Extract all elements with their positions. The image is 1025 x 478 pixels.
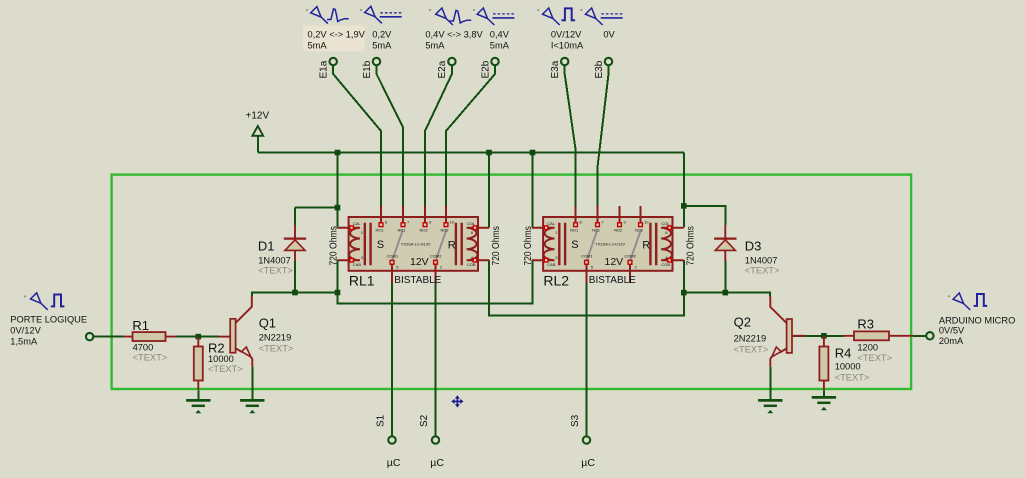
node bus-RL1R junction [486, 150, 492, 156]
svg-text:720 Ohms: 720 Ohms [523, 226, 534, 266]
terminal input left [86, 333, 93, 340]
wire bus to RL2 coil S top pin [532, 153, 534, 228]
resistor R2 10000 [194, 337, 203, 390]
svg-text:2N2219: 2N2219 [734, 334, 767, 344]
svg-text:COL: COL [661, 221, 670, 226]
svg-text:R: R [642, 239, 650, 251]
coil R of RL1 [467, 228, 490, 261]
wire bus to RL1 coil R top pin [488, 153, 490, 228]
svg-text:COM1: COM1 [387, 253, 399, 258]
wire RL1 COB to RL2 COB bottom link [489, 260, 684, 315]
svg-text:1,5mA: 1,5mA [10, 336, 38, 346]
svg-text:Q1: Q1 [259, 315, 276, 330]
wire Q2 emitter to ground [769, 367, 771, 401]
wire Q1 collector rail [252, 293, 338, 297]
wire bus to RL1 coil S top pin [337, 153, 339, 228]
terminal E2b [480, 58, 498, 79]
svg-text:COM2: COM2 [624, 253, 636, 258]
terminal S1 [376, 414, 396, 443]
svg-text:TX2SA-L2-H12V: TX2SA-L2-H12V [401, 241, 431, 246]
resistor R1 4700 [124, 332, 177, 341]
svg-text:I<10mA: I<10mA [551, 40, 584, 50]
svg-text:0,4V: 0,4V [490, 29, 510, 39]
svg-text:<TEXT>: <TEXT> [857, 353, 892, 363]
svg-text:CAL: CAL [547, 221, 556, 226]
wire E3a diagonal [565, 66, 576, 206]
svg-text:S: S [571, 239, 578, 251]
svg-text:0,2V: 0,2V [372, 29, 392, 39]
node D1 cathode junction [335, 205, 341, 211]
svg-text:S1: S1 [376, 414, 387, 427]
label R4 [835, 346, 870, 383]
probe E1a analog [306, 7, 349, 24]
node R2 base junction [196, 334, 202, 340]
probe E2a analog [429, 8, 471, 25]
svg-text:<TEXT>: <TEXT> [734, 345, 769, 355]
wire E2b diagonal [446, 66, 495, 206]
terminal S2 [419, 414, 439, 443]
ground under Q2 [758, 400, 782, 413]
label PORTE LOGIQUE [10, 315, 87, 347]
svg-text:CAB: CAB [353, 262, 362, 267]
svg-text:COB: COB [661, 262, 670, 267]
wire Q1 emitter to ground [251, 367, 253, 401]
pin stubs COM RL2 [587, 262, 631, 283]
wire R2 bottom to ground [197, 390, 199, 400]
relay RL2 body [543, 217, 672, 271]
pads RL2 [544, 223, 671, 264]
resistor R4 10000 [819, 336, 828, 391]
svg-text:NC1: NC1 [592, 228, 601, 233]
svg-text:0V/5V: 0V/5V [939, 326, 965, 336]
svg-text:D1: D1 [258, 238, 275, 253]
svg-text:RL1: RL1 [349, 272, 375, 288]
wire D1 cathode vertical [294, 208, 296, 225]
node D3 cathode junction [681, 203, 687, 209]
svg-text:NC2: NC2 [441, 228, 450, 233]
label +12V [246, 111, 270, 122]
svg-text:R: R [448, 239, 456, 251]
svg-text:720 Ohms: 720 Ohms [686, 226, 697, 266]
terminal E3a [550, 58, 568, 79]
svg-text:S: S [377, 239, 384, 251]
svg-text:BISTABLE: BISTABLE [589, 275, 636, 286]
wire Q2 base to R4 node [792, 335, 843, 337]
wire S1 COM1 down [391, 283, 393, 436]
svg-text:10: 10 [644, 220, 649, 225]
svg-text:+12V: +12V [246, 111, 270, 122]
svg-text:TX2SA-L2-H12V: TX2SA-L2-H12V [595, 241, 625, 246]
coil S of RL2 [532, 228, 555, 261]
svg-text:D3: D3 [745, 238, 762, 253]
node RL2 coil rail junction [681, 290, 687, 296]
pin stubs COM RL1 [392, 262, 436, 283]
label D1 [258, 238, 293, 275]
probe E1b dc [360, 6, 402, 23]
label probe1 values [308, 29, 366, 50]
node RL1 coil rail junction [335, 290, 341, 296]
probe E2b dc [473, 8, 514, 25]
wire bus corner down to RL2 coil R top pin [683, 153, 685, 228]
wire +12V horizontal bus [258, 152, 684, 154]
wire +12V vertical drop [257, 136, 259, 153]
wire RL1 CAB to RL2 CAB bottom link [338, 260, 533, 303]
resistor R3 1200 [843, 331, 913, 340]
svg-text:<TEXT>: <TEXT> [259, 343, 294, 353]
switch levers RL2 [587, 230, 642, 262]
svg-text:10: 10 [450, 220, 455, 225]
svg-text:10000: 10000 [208, 354, 234, 364]
wire E1b diagonal [377, 66, 404, 206]
coil S of RL1 [337, 228, 360, 261]
svg-text:0,4V <-> 3,8V: 0,4V <-> 3,8V [425, 29, 483, 39]
svg-text:µC: µC [430, 457, 444, 469]
wire R4 bottom to ground [823, 390, 825, 397]
label R2 [208, 340, 243, 373]
terminal E1b [362, 58, 380, 79]
wire R1 to Q1 base node [177, 336, 219, 338]
svg-text:COB: COB [467, 262, 476, 267]
svg-text:0V/12V: 0V/12V [10, 326, 41, 336]
node bus-RL2 junction [530, 150, 536, 156]
terminal E1a [319, 58, 337, 79]
origin marker crosshair [451, 395, 463, 407]
label probe2 values [372, 29, 392, 50]
wire R3 to output terminal [913, 335, 926, 337]
svg-text:E2b: E2b [480, 60, 491, 78]
svg-text:5mA: 5mA [425, 40, 445, 50]
wire D3 cathode branch [684, 206, 726, 225]
label uC S1 [387, 457, 401, 469]
svg-text:1N4007: 1N4007 [745, 256, 778, 266]
pin stubs top RL2 [576, 206, 641, 223]
svg-text:R4: R4 [835, 346, 852, 361]
relay RL1 body [349, 217, 478, 271]
wire E2a diagonal [425, 66, 452, 206]
terminal E3b [594, 58, 612, 79]
probe E3b dc [580, 8, 622, 25]
svg-text:µC: µC [387, 457, 401, 469]
ground under Q1 [240, 400, 264, 413]
svg-text:NC2: NC2 [635, 228, 644, 233]
pads RL1 [350, 223, 477, 264]
svg-text:NO1: NO1 [376, 228, 385, 233]
svg-text:BISTABLE: BISTABLE [394, 275, 441, 286]
node D1 anode junction [292, 290, 298, 296]
power +12V arrow [252, 126, 263, 136]
node D3 anode junction [723, 290, 729, 296]
svg-text:0V/12V: 0V/12V [551, 29, 582, 39]
svg-text:S3: S3 [570, 414, 581, 427]
wire D1 cathode to bus branch [295, 207, 338, 209]
svg-text:ARDUINO MICRO: ARDUINO MICRO [939, 316, 1015, 326]
svg-text:CAL: CAL [353, 221, 362, 226]
svg-text:RL2: RL2 [543, 272, 569, 288]
label R3 [857, 316, 892, 363]
transistor Q1 2N2219 [219, 296, 253, 367]
svg-text:R1: R1 [132, 318, 149, 333]
wire input terminal to R1 [94, 336, 124, 338]
tiny pin labels RL2 [547, 220, 670, 270]
svg-text:1200: 1200 [857, 342, 878, 352]
svg-text:<TEXT>: <TEXT> [258, 266, 293, 276]
svg-text:COM1: COM1 [581, 253, 593, 258]
svg-text:0,2V <-> 1,9V: 0,2V <-> 1,9V [308, 29, 366, 39]
pin stubs top RL1 [381, 206, 446, 223]
svg-text:NO2: NO2 [614, 228, 623, 233]
node R4 base junction [821, 333, 827, 339]
tiny pin labels RL1 [353, 220, 476, 270]
svg-text:12V: 12V [410, 256, 429, 268]
wire S2 COM2 down [435, 283, 437, 436]
highlight box [303, 26, 365, 52]
svg-text:<TEXT>: <TEXT> [835, 372, 870, 382]
core bars S RL2 [559, 223, 565, 266]
label uC S3 [581, 457, 595, 469]
switch levers RL1 [392, 230, 447, 262]
svg-text:2N2219: 2N2219 [259, 332, 292, 342]
svg-text:E3b: E3b [594, 60, 605, 78]
svg-text:5mA: 5mA [308, 40, 328, 50]
label R1 [132, 318, 167, 363]
svg-text:S2: S2 [419, 414, 430, 427]
terminal E2a [437, 58, 455, 79]
core bars S RL1 [365, 223, 371, 266]
svg-text:PORTE LOGIQUE: PORTE LOGIQUE [10, 315, 87, 325]
svg-text:E1b: E1b [362, 60, 373, 78]
svg-text:R3: R3 [857, 316, 874, 331]
wire D1 anode vertical [294, 261, 296, 293]
ground under R4 [812, 397, 836, 410]
svg-text:0V: 0V [603, 29, 615, 39]
svg-text:12V: 12V [605, 256, 624, 268]
svg-text:E3a: E3a [550, 60, 561, 78]
svg-text:NO2: NO2 [420, 228, 429, 233]
core bars R RL2 [650, 223, 656, 266]
wire Q2 collector rail [684, 293, 770, 297]
wire E3b diagonal [598, 66, 609, 206]
label Q2 [734, 315, 769, 355]
svg-text:720 Ohms: 720 Ohms [491, 226, 502, 266]
svg-text:5mA: 5mA [372, 40, 392, 50]
diode D1 1N4007 [284, 225, 306, 261]
svg-text:<TEXT>: <TEXT> [133, 353, 168, 363]
label Q1 [259, 315, 294, 353]
svg-text:COM2: COM2 [430, 253, 442, 258]
label probe3 values [425, 29, 483, 50]
label uC S2 [430, 457, 444, 469]
ground under R2 [186, 400, 210, 413]
svg-text:µC: µC [581, 457, 595, 469]
label probe6 values [603, 29, 615, 39]
terminal output right [926, 332, 933, 339]
label probe4 values [490, 29, 510, 50]
svg-text:NC1: NC1 [398, 228, 407, 233]
svg-text:NO1: NO1 [570, 228, 579, 233]
svg-text:COL: COL [467, 221, 476, 226]
coil R of RL2 [661, 228, 684, 261]
wire D3 anode vertical [724, 261, 726, 293]
svg-text:<TEXT>: <TEXT> [208, 364, 243, 374]
probe output pulse [948, 293, 987, 310]
probe input pulse [24, 293, 64, 310]
green boundary rectangle [112, 175, 912, 389]
svg-text:Q2: Q2 [734, 315, 751, 330]
terminal S3 [570, 414, 590, 443]
transistor Q2 2N2219 [770, 297, 805, 367]
svg-text:E1a: E1a [319, 60, 330, 78]
wire E1a diagonal [333, 66, 381, 206]
label probe5 values [551, 29, 584, 50]
svg-text:CAB: CAB [547, 262, 556, 267]
svg-text:10000: 10000 [835, 362, 861, 372]
label D3 [745, 238, 780, 275]
svg-text:5mA: 5mA [490, 40, 510, 50]
wire S3 RL2 COM1 down [586, 283, 588, 436]
svg-text:720 Ohms: 720 Ohms [329, 226, 340, 266]
probe E3a pulse [537, 8, 575, 25]
label ARDUINO MICRO [939, 316, 1015, 346]
svg-text:1N4007: 1N4007 [258, 256, 291, 266]
node bus-RL1 junction [335, 150, 341, 156]
svg-text:<TEXT>: <TEXT> [745, 266, 780, 276]
core bars R RL1 [456, 223, 462, 266]
svg-text:E2a: E2a [437, 60, 448, 78]
svg-text:4700: 4700 [133, 343, 154, 353]
diode D3 1N4007 [714, 225, 736, 261]
svg-text:20mA: 20mA [939, 336, 964, 346]
